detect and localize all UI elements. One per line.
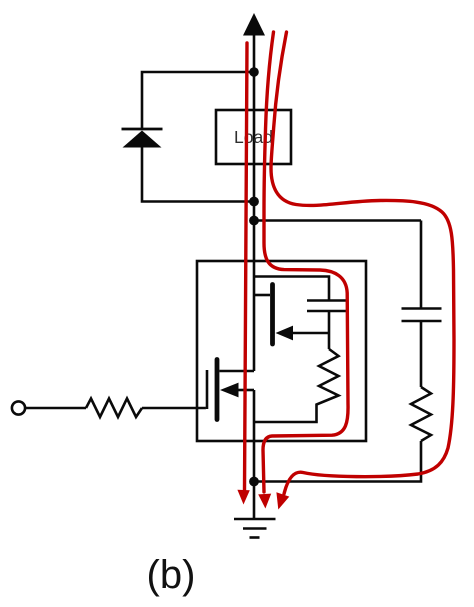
svg-text:(b): (b)	[147, 553, 196, 597]
